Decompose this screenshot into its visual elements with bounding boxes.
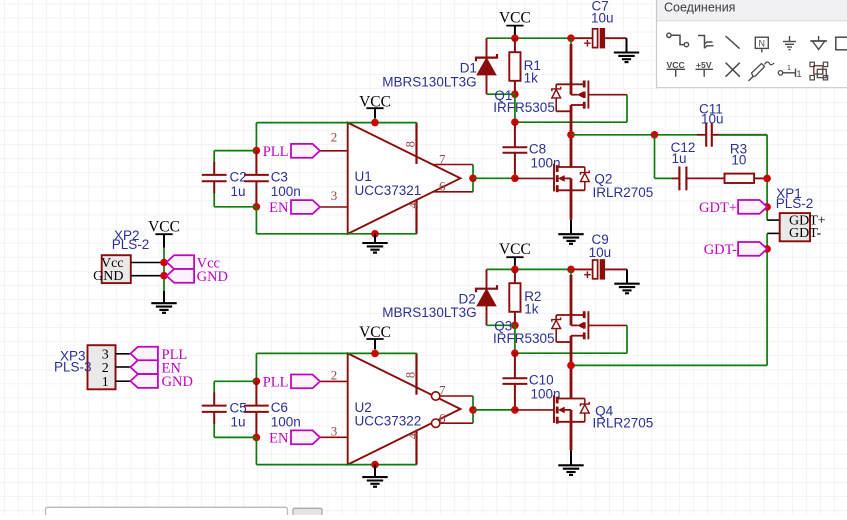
label C2 value 1u bbox=[231, 184, 246, 199]
label R1 value 1k bbox=[524, 71, 539, 86]
label D1 bbox=[460, 61, 477, 76]
label R2 value 1k bbox=[524, 302, 539, 317]
svg-text:C5: C5 bbox=[230, 400, 247, 415]
svg-text:GND: GND bbox=[162, 374, 193, 390]
U1 pin 4 number bbox=[406, 201, 420, 208]
svg-text:10u: 10u bbox=[701, 111, 724, 126]
transistor Q3 drain lead bbox=[570, 336, 573, 366]
label C10 bbox=[529, 372, 554, 387]
label C11 value 10u bbox=[701, 111, 724, 126]
label D2 part MBRS130LT3G bbox=[382, 305, 476, 320]
XP1 pin name GDT+ bbox=[789, 214, 826, 229]
wire Q1 gate down bbox=[626, 95, 628, 123]
svg-text:10u: 10u bbox=[589, 245, 612, 260]
wire C5 bottom branch bbox=[214, 436, 256, 438]
toolbar panel Соединения bbox=[657, 0, 847, 89]
svg-text:PLS-3: PLS-3 bbox=[54, 360, 92, 375]
svg-text:1k: 1k bbox=[524, 71, 539, 86]
U1 pin 7 line bbox=[432, 164, 473, 166]
junction C2 top bbox=[253, 147, 261, 155]
Q4 body diode bbox=[580, 399, 589, 422]
svg-text:Соединения: Соединения bbox=[664, 0, 735, 14]
label C12 value 1u bbox=[672, 151, 687, 166]
toolbar icon pin numbering bbox=[778, 63, 801, 80]
XP2 pin name Vcc bbox=[101, 256, 124, 271]
XP1 pin 2 line bbox=[767, 232, 780, 234]
capacitor C10 100n bbox=[503, 353, 528, 409]
junction Q4 drain output node bbox=[567, 362, 575, 370]
label XP1 part PLS-2 bbox=[776, 196, 814, 211]
transistor Q1 source lead bbox=[570, 38, 572, 84]
svg-text:1: 1 bbox=[787, 63, 791, 72]
wire C12 branch down bbox=[654, 135, 656, 179]
transistor Q2 source lead bbox=[570, 190, 573, 219]
wire U2 output bar bbox=[472, 396, 474, 423]
Q3 body diode bbox=[552, 315, 561, 342]
junction XP2 pin1 bbox=[160, 259, 168, 267]
ground below U1 bbox=[362, 234, 387, 253]
junction U2 output bbox=[469, 406, 477, 414]
capacitor C2 bottom lead green bbox=[213, 193, 215, 207]
transistor Q3 source lead bbox=[570, 269, 572, 315]
svg-text:PLS-2: PLS-2 bbox=[112, 237, 150, 252]
junction C10 bottom node bbox=[511, 406, 519, 414]
net port PLL at XP3 bbox=[130, 347, 187, 363]
svg-text:C8: C8 bbox=[529, 142, 546, 157]
resistor R2 1k bbox=[509, 269, 520, 325]
junction VCC rail at Q1 bbox=[567, 34, 575, 42]
capacitor C8 100n bbox=[503, 122, 528, 178]
toolbar icon draw wire pen bbox=[749, 62, 775, 81]
junction U1 GND bbox=[371, 230, 379, 238]
svg-text:6: 6 bbox=[439, 411, 446, 426]
net port PLL at U1 bbox=[263, 144, 320, 160]
label C7 value bbox=[591, 10, 614, 25]
wire C2C3 vertical bottom bbox=[255, 207, 257, 234]
Q1 gate pin line bbox=[588, 94, 627, 96]
U2 pin 6 line bbox=[440, 422, 473, 424]
label C3 value 100n bbox=[271, 184, 301, 199]
svg-text:VCC: VCC bbox=[499, 9, 531, 26]
wire U2 VCC rail bbox=[256, 352, 417, 354]
transistor Q1 IRFR5305 P-MOSFET body bbox=[556, 81, 588, 112]
wire U2 output to C10 node bbox=[473, 409, 515, 411]
wire output row to C11 bbox=[571, 134, 698, 136]
label C10 value 100n bbox=[531, 386, 561, 401]
label Q3 bbox=[494, 319, 512, 334]
transistor Q4 IRLR2705 N-MOSFET body bbox=[554, 395, 585, 423]
wire XP2 vertical bbox=[163, 248, 165, 291]
XP3 pin number 2 bbox=[102, 361, 109, 376]
U2 pin 7 number bbox=[439, 383, 446, 398]
svg-text:VCC: VCC bbox=[667, 60, 685, 70]
toolbar icon group edit bbox=[810, 62, 828, 80]
svg-text:EN: EN bbox=[269, 200, 289, 216]
label Q4 part IRLR2705 bbox=[593, 416, 654, 431]
toolbar icon bus entry bbox=[726, 36, 740, 49]
ground at C9 bbox=[614, 269, 639, 293]
VCC power flag above U1 bbox=[359, 93, 391, 118]
wire GDT+ column bbox=[766, 135, 768, 220]
junction XP2 pin2 bbox=[160, 272, 168, 280]
svg-text:1k: 1k bbox=[524, 302, 539, 317]
resistor R1 1k bbox=[509, 38, 520, 94]
XP3 pin 2 line bbox=[116, 366, 131, 368]
U1 pin 6 number bbox=[439, 178, 446, 193]
label XP2 bbox=[114, 228, 140, 243]
label D1 part MBRS130LT3G bbox=[382, 74, 476, 89]
svg-text:GDT-: GDT- bbox=[789, 226, 821, 241]
label XP3 bbox=[60, 348, 86, 363]
label R3 value 10 bbox=[731, 153, 746, 168]
net port EN at XP3 bbox=[130, 360, 181, 376]
svg-text:GDT+: GDT+ bbox=[699, 200, 737, 216]
svg-text:1: 1 bbox=[796, 69, 801, 80]
svg-text:4: 4 bbox=[406, 432, 420, 439]
wire VCC rail bottom bbox=[487, 268, 576, 270]
net port GDT- bbox=[704, 242, 767, 258]
connector XP1 PLS-2 body bbox=[780, 213, 810, 241]
wire C5 top branch bbox=[214, 380, 256, 382]
bottom small button bbox=[293, 508, 322, 519]
bottom input box bbox=[46, 507, 288, 519]
U2 pin 4 number bbox=[406, 432, 420, 439]
junction GDT- flag bbox=[763, 245, 771, 253]
svg-text:UCC37321: UCC37321 bbox=[355, 183, 422, 198]
junction C5 top bbox=[253, 378, 261, 386]
label Q2 part IRLR2705 bbox=[593, 185, 654, 200]
junction VCC rail at R1 bbox=[511, 34, 519, 42]
capacitor C2 1u bbox=[202, 162, 227, 194]
junction U2 VCC bbox=[371, 350, 379, 358]
wire Q3 gate row to C10 bbox=[515, 352, 627, 354]
U2 pin 3 line bbox=[320, 436, 348, 438]
ground at C7 bbox=[614, 38, 639, 62]
label C9 bbox=[592, 232, 609, 247]
op-amp U2 UCC37322 triangle bbox=[348, 353, 461, 464]
net port EN at U2 bbox=[269, 430, 320, 446]
label C7 bbox=[592, 0, 609, 14]
label U1 bbox=[355, 169, 372, 184]
svg-text:GND: GND bbox=[93, 269, 123, 284]
capacitor C5 top lead green bbox=[213, 381, 215, 393]
svg-text:MBRS130LT3G: MBRS130LT3G bbox=[382, 305, 476, 320]
label Q1 bbox=[494, 88, 512, 103]
svg-text:10: 10 bbox=[731, 153, 746, 168]
label R1 bbox=[524, 58, 541, 73]
svg-text:C10: C10 bbox=[529, 372, 554, 387]
junction node D1 R1 bbox=[511, 90, 519, 98]
svg-text:10u: 10u bbox=[591, 10, 614, 25]
svg-text:C6: C6 bbox=[271, 400, 288, 415]
svg-text:1u: 1u bbox=[672, 151, 687, 166]
capacitor C2 top lead green bbox=[213, 151, 215, 163]
svg-text:IRLR2705: IRLR2705 bbox=[593, 416, 654, 431]
label R2 bbox=[524, 289, 541, 304]
junction C8 bottom node bbox=[511, 175, 519, 183]
U1 pin 8 number bbox=[404, 141, 418, 147]
label C5 value 1u bbox=[231, 415, 246, 430]
wire U1 GND rail bbox=[256, 233, 417, 235]
svg-text:100n: 100n bbox=[271, 184, 301, 199]
net port GND at XP2 bbox=[167, 269, 228, 285]
label C2 bbox=[230, 170, 247, 185]
wire D1 to R1 node bbox=[487, 93, 515, 95]
U2 pin 7 line bbox=[440, 395, 473, 397]
label U2 part UCC37322 bbox=[355, 413, 422, 428]
wire C5C6 vertical top bbox=[255, 353, 257, 381]
U1 pin 7 number bbox=[439, 152, 446, 167]
label C11 bbox=[699, 102, 723, 117]
svg-text:UCC37322: UCC37322 bbox=[355, 413, 422, 428]
svg-text:PLL: PLL bbox=[263, 375, 289, 391]
wire Q3 gate down bbox=[626, 325, 628, 353]
label C8 value 100n bbox=[531, 156, 561, 171]
junction node D2 R2 bbox=[511, 322, 519, 330]
junction C10 top node bbox=[511, 349, 519, 357]
svg-text:PLS-2: PLS-2 bbox=[776, 196, 814, 211]
svg-text:N: N bbox=[759, 38, 766, 48]
Q1 body diode loop bbox=[555, 84, 557, 111]
net port EN at U1 bbox=[269, 200, 320, 216]
ground below XP2 bbox=[151, 291, 176, 313]
label C12 bbox=[671, 140, 696, 155]
ground below Q2 bbox=[558, 220, 583, 244]
XP3 pin 3 line bbox=[116, 353, 131, 355]
U2 pin 2 line bbox=[320, 380, 348, 382]
Q3 body diode loop bbox=[555, 315, 557, 342]
svg-text:GND: GND bbox=[197, 269, 228, 285]
U1 pin 6 line bbox=[433, 191, 474, 193]
connector XP2 PLS-2 body bbox=[102, 255, 131, 283]
label Q3 part IRFR5305 bbox=[493, 331, 555, 346]
net port Vcc at XP2 bbox=[167, 255, 220, 271]
junction U1 output bbox=[469, 175, 477, 183]
transistor Q2 IRLR2705 N-MOSFET body bbox=[554, 164, 585, 192]
XP2 pin 2 line bbox=[131, 275, 162, 277]
VCC power flag bottom rail bbox=[499, 241, 531, 266]
toolbar icon bus bbox=[698, 36, 714, 49]
toolbar icon net label bbox=[755, 37, 768, 52]
svg-text:2: 2 bbox=[331, 368, 338, 383]
resistor R3 10 bbox=[725, 174, 768, 183]
wire Q4 gate lead bbox=[515, 409, 554, 411]
label XP1 bbox=[776, 186, 802, 201]
label Q1 part IRFR5305 bbox=[493, 100, 555, 115]
label C3 bbox=[271, 169, 288, 184]
U1 pin 3 number bbox=[331, 188, 338, 203]
VCC power flag above U2 bbox=[359, 324, 391, 349]
transistor Q1 drain lead bbox=[570, 105, 573, 135]
U1 pin 3 line bbox=[320, 206, 348, 208]
U1 pin 2 number bbox=[331, 130, 338, 145]
XP3 pin 1 line bbox=[116, 380, 131, 382]
wire Q2 gate lead bbox=[515, 177, 554, 179]
toolbar icon +5V flag bbox=[696, 60, 714, 77]
svg-text:IRLR2705: IRLR2705 bbox=[593, 185, 654, 200]
wire GDT- row to Q4 drain bbox=[571, 364, 767, 366]
capacitor C5 1u bbox=[202, 393, 227, 425]
op-amp U1 UCC37321 triangle bbox=[348, 123, 461, 234]
capacitor C5 bottom lead green bbox=[213, 424, 215, 438]
wire C11 to GDT+ column bbox=[719, 134, 767, 136]
XP1 pin 1 line bbox=[767, 219, 780, 221]
svg-text:+: + bbox=[584, 267, 592, 282]
U2 pin 6 number bbox=[439, 411, 446, 426]
U1 pin 2 line bbox=[320, 150, 348, 152]
diode D1 MBRS130LT3G bbox=[476, 38, 497, 94]
svg-text:8: 8 bbox=[404, 372, 418, 378]
svg-text:IRFR5305: IRFR5305 bbox=[493, 331, 555, 346]
toolbar icon VCC flag bbox=[667, 60, 686, 77]
svg-text:3: 3 bbox=[331, 423, 338, 438]
wire U1 output to C8 node bbox=[473, 177, 515, 179]
junction U1 VCC bbox=[371, 119, 379, 127]
wire node down to C8 row bbox=[514, 94, 516, 122]
label XP2 part PLS-2 bbox=[112, 237, 150, 252]
svg-text:100n: 100n bbox=[271, 415, 301, 430]
net port GDT+ bbox=[699, 200, 767, 216]
svg-text:C2: C2 bbox=[230, 170, 247, 185]
XP3 pin number 3 bbox=[102, 347, 109, 362]
svg-text:7: 7 bbox=[439, 152, 446, 167]
wire U2 GND rail bbox=[256, 464, 417, 466]
U2 pin 2 number bbox=[331, 368, 338, 383]
toolbar icon wire bbox=[667, 33, 689, 47]
capacitor C9 polarized bbox=[575, 259, 627, 282]
svg-text:C3: C3 bbox=[271, 169, 288, 184]
wire C2 top branch bbox=[214, 150, 256, 152]
label U2 bbox=[355, 400, 372, 415]
junction GDT+ flag bbox=[763, 203, 771, 211]
label Q2 bbox=[594, 172, 612, 187]
svg-text:1u: 1u bbox=[231, 415, 246, 430]
U2 pin 3 number bbox=[331, 423, 338, 438]
svg-text:+5V: +5V bbox=[696, 60, 712, 70]
ground below Q4 bbox=[558, 450, 583, 475]
wire VCC rail top bbox=[487, 37, 576, 39]
junction Q2 drain output node bbox=[567, 131, 575, 139]
junction U2 GND bbox=[371, 461, 379, 469]
svg-text:2: 2 bbox=[102, 361, 109, 376]
svg-text:3: 3 bbox=[331, 188, 338, 203]
diode D2 MBRS130LT3G bbox=[476, 269, 497, 325]
svg-text:GDT-: GDT- bbox=[704, 242, 737, 258]
capacitor C7 polarized bbox=[575, 28, 627, 51]
capacitor C3 100n bbox=[244, 151, 269, 207]
U2 pin 7 bubble bbox=[432, 392, 440, 400]
svg-text:PLL: PLL bbox=[263, 144, 289, 160]
wire C5C6 vertical bottom bbox=[255, 437, 257, 464]
svg-text:VCC: VCC bbox=[148, 219, 180, 236]
toolbar icon earth ground bbox=[810, 36, 827, 49]
wire U1 VCC rail bbox=[256, 122, 417, 124]
junction C5 bottom bbox=[253, 434, 261, 442]
label U1 part UCC37321 bbox=[355, 183, 422, 198]
toolbar icon rectangle bbox=[836, 37, 847, 50]
label C6 value 100n bbox=[271, 415, 301, 430]
svg-text:7: 7 bbox=[439, 383, 446, 398]
U2 pin 8 number bbox=[404, 372, 418, 378]
svg-text:6: 6 bbox=[439, 178, 446, 193]
transistor Q4 drain lead bbox=[570, 365, 573, 398]
wire Q1 gate row to C8 bbox=[515, 121, 627, 123]
junction VCC rail2 at R2 bbox=[511, 266, 519, 274]
junction C8 top node bbox=[511, 118, 519, 126]
wire node down to C10 row bbox=[514, 325, 516, 353]
toolbar icon no-connect X bbox=[726, 63, 740, 77]
capacitor C11 10u bbox=[697, 123, 767, 147]
label D2 bbox=[459, 292, 476, 307]
label Q4 bbox=[595, 403, 614, 418]
ground below U2 bbox=[362, 465, 387, 487]
transistor Q4 source lead bbox=[570, 422, 573, 451]
svg-text:VCC: VCC bbox=[499, 241, 531, 258]
capacitor C12 1u bbox=[672, 167, 725, 191]
VCC power flag above XP2 bbox=[148, 219, 180, 248]
svg-text:IRFR5305: IRFR5305 bbox=[493, 100, 555, 115]
XP2 pin 1 line bbox=[131, 262, 162, 264]
U2 pin 6 bubble bbox=[432, 419, 440, 427]
Q3 gate pin line bbox=[588, 324, 627, 326]
label C6 bbox=[271, 400, 288, 415]
svg-text:2: 2 bbox=[331, 130, 338, 145]
capacitor C6 100n bbox=[244, 381, 269, 437]
Q1 body diode bbox=[552, 84, 561, 111]
junction output row at C12 branch bbox=[651, 131, 659, 139]
svg-text:8: 8 bbox=[404, 141, 418, 147]
wire C2C3 vertical top bbox=[255, 123, 257, 151]
connector XP3 PLS-3 body bbox=[88, 345, 116, 389]
VCC power flag top rail bbox=[499, 9, 531, 34]
svg-text:+: + bbox=[584, 36, 592, 51]
transistor Q3 IRFR5305 P-MOSFET body bbox=[556, 311, 588, 342]
svg-text:1: 1 bbox=[102, 375, 109, 390]
svg-text:EN: EN bbox=[269, 431, 289, 447]
svg-text:4: 4 bbox=[406, 201, 420, 208]
wire C12 branch right bbox=[655, 177, 674, 179]
svg-text:1u: 1u bbox=[231, 184, 246, 199]
net port GND at XP3 bbox=[130, 374, 193, 390]
junction VCC rail2 at Q3 bbox=[567, 266, 575, 274]
junction R3 output bbox=[763, 175, 771, 183]
label XP3 part PLS-3 bbox=[54, 360, 92, 375]
XP3 pin number 1 bbox=[102, 375, 109, 390]
net port PLL at U2 bbox=[263, 375, 320, 391]
wire C2 bottom branch bbox=[214, 206, 256, 208]
wire GDT- column bbox=[766, 233, 768, 365]
label C9 value 10u bbox=[589, 245, 612, 260]
label C5 bbox=[230, 400, 247, 415]
toolbar icon ground bbox=[783, 36, 796, 50]
wire D2 to R2 node bbox=[487, 324, 515, 326]
junction C2 bottom bbox=[253, 203, 261, 211]
transistor Q2 drain lead bbox=[570, 135, 573, 167]
label R3 bbox=[730, 141, 747, 156]
Q2 body diode bbox=[580, 167, 589, 190]
XP2 pin name GND bbox=[93, 269, 123, 284]
svg-text:MBRS130LT3G: MBRS130LT3G bbox=[382, 74, 476, 89]
XP1 pin name GDT- bbox=[789, 226, 821, 241]
label C8 bbox=[529, 142, 546, 157]
svg-text:D1: D1 bbox=[460, 61, 477, 76]
wire U1 output bar bbox=[472, 165, 474, 192]
